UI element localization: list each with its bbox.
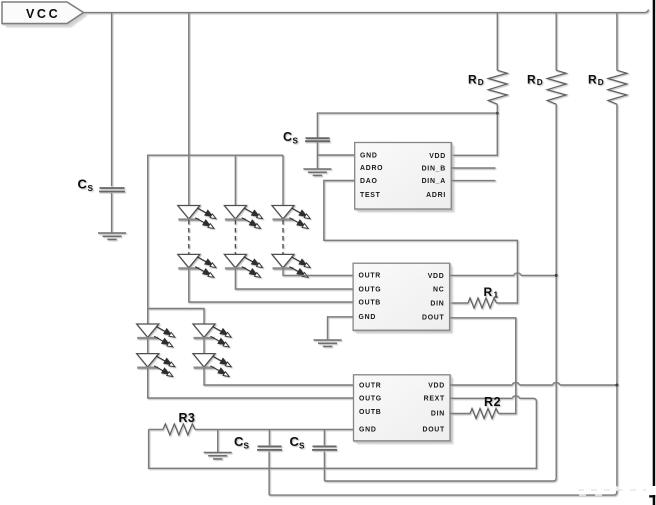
junction at U3 VDD / RD3 leg (615, 384, 618, 387)
resistor RD2 (527, 70, 566, 104)
wire Cs3 bottom lead (268, 452, 270, 496)
svg-text:DIN: DIN (431, 410, 445, 417)
svg-text:ADRO: ADRO (360, 165, 383, 172)
wire bank1 col2 feed (234, 155, 236, 205)
LED D7 (bank2 r1c1) (137, 324, 175, 347)
svg-text:S: S (88, 184, 94, 193)
wire Cs left bottom lead (111, 193, 113, 233)
wire LED bank1 top rail (148, 155, 283, 324)
svg-text:DIN: DIN (430, 300, 444, 307)
svg-text:ADRI: ADRI (426, 192, 446, 199)
junction at Cs2 wire / RD1 leg (496, 112, 499, 115)
capacitor C_S (by U1) (283, 130, 330, 146)
svg-text:C: C (78, 177, 88, 192)
wire RD3 lower leg to Cs3 rail (269, 104, 617, 495)
svg-text:GND: GND (360, 152, 378, 159)
svg-text:R: R (527, 73, 536, 87)
LED D9 (bank2 r2c1) (137, 354, 175, 377)
wire bank2 col1 link (147, 338, 149, 353)
power flag VCC (2, 2, 87, 27)
wire U1 DAO to R1 to U2 DIN (324, 181, 518, 304)
svg-text:R3: R3 (179, 411, 196, 425)
wire U1 DIN_B stub (451, 167, 495, 169)
capacitor C_S (Cs4) (290, 434, 338, 451)
svg-text:C: C (234, 434, 244, 449)
svg-text:DIN_A: DIN_A (422, 178, 446, 185)
wire VCC branch to Cs left (111, 13, 113, 187)
wire U2 DOUT to R2 to U3 DIN (450, 318, 516, 414)
svg-text:VDD: VDD (429, 153, 446, 160)
svg-text:OUTB: OUTB (359, 299, 382, 306)
wire Cs2 bottom lead (316, 142, 318, 168)
svg-text:C: C (283, 130, 292, 144)
wire Cs4 bottom lead (323, 452, 325, 482)
resistor RD3 (588, 70, 627, 104)
hop arc on U3 REXT (512, 396, 519, 399)
LED D6 (bank1 r2c3) (272, 254, 310, 277)
wire D9 cathode to U3 OUTG (148, 368, 354, 398)
wire U2 GND to ground (328, 317, 354, 339)
wire bank2 col2 link (203, 338, 205, 353)
wire D5 cathode to U2 OUTG (235, 269, 353, 289)
svg-text:OUTG: OUTG (359, 286, 382, 293)
svg-text:OUTG: OUTG (359, 396, 382, 403)
svg-text:R: R (484, 285, 493, 299)
svg-text:VDD: VDD (428, 382, 445, 389)
wire VCC branch to LED bank1 col1 (188, 13, 190, 206)
resistor RD1 (468, 70, 507, 104)
wire Cs2 top to RD1 leg (317, 113, 497, 137)
svg-text:DAO: DAO (360, 178, 378, 185)
wire R2 lead to U3 DIN (450, 413, 470, 415)
LED D2 (bank1 r1c2) (224, 206, 262, 229)
svg-text:NC: NC (433, 286, 444, 293)
capacitor C_S (Cs3) (234, 434, 282, 451)
svg-text:S: S (244, 442, 250, 451)
wire bank1 col3 feed (282, 155, 284, 205)
svg-text:C: C (290, 434, 300, 449)
border black tick (649, 495, 655, 497)
svg-text:DIN_B: DIN_B (422, 165, 446, 172)
svg-text:OUTR: OUTR (359, 273, 382, 280)
LED D3 (bank1 r1c3) (272, 206, 310, 229)
svg-text:VCC: VCC (26, 7, 60, 21)
svg-text:S: S (293, 136, 299, 145)
resistor R1 (468, 285, 499, 308)
svg-text:R: R (588, 73, 597, 87)
resistor R3 (163, 411, 195, 435)
svg-text:GND: GND (359, 314, 377, 321)
ground (GND rail) (204, 453, 232, 459)
wire dashed link col1 (188, 220, 190, 254)
IC U1 (355, 143, 454, 212)
wire D6 cathode to U2 OUTR (283, 269, 353, 276)
wire RD1 to U1 VDD (451, 104, 497, 155)
wire ground tap on GND rail (217, 429, 219, 452)
watermark erase artifact (dashes over Cs3 rail) (577, 485, 646, 495)
wire GND rail (U3 GND to R3) (149, 428, 354, 430)
hop arc on U2 VDD (514, 273, 521, 276)
IC U3 (354, 375, 453, 444)
LED D10 (bank2 r2c2) (193, 354, 231, 377)
svg-text:R: R (468, 73, 477, 87)
svg-text:VDD: VDD (428, 273, 445, 280)
svg-text:REXT: REXT (424, 396, 445, 403)
wire dashed link col2 (234, 220, 236, 254)
IC U2 (353, 263, 452, 333)
wire dashed link col3 (282, 220, 284, 254)
border right black bar (653, 0, 656, 486)
wire VCC branch to RD2 (555, 13, 557, 71)
LED D5 (bank1 r2c2) (224, 254, 262, 277)
wire Cs3 top lead (268, 429, 270, 445)
svg-text:R2: R2 (484, 395, 501, 409)
svg-text:D: D (478, 78, 484, 87)
wire D10 cathode to U3 OUTR (204, 368, 354, 385)
LED D1 (bank1 r1c1) (178, 206, 216, 229)
wire U2 DIN lead to R1 (450, 302, 468, 304)
wire VCC top rail (84, 10, 649, 13)
wire U3 VDD to RD3 leg (two hops) (450, 384, 617, 386)
svg-text:D: D (537, 78, 543, 87)
LED D4 (bank1 r2c1) (178, 254, 216, 277)
junction at U2 VDD / RD2 leg (555, 274, 558, 277)
hop arcs on U3 VDD (512, 383, 559, 386)
svg-text:TEST: TEST (360, 192, 381, 199)
LED D8 (bank2 r1c2) (193, 324, 231, 347)
svg-text:S: S (299, 442, 305, 451)
resistor R2 (470, 395, 501, 419)
wire VCC branch to RD1 (496, 13, 498, 71)
ground (U2 GND) (314, 340, 342, 346)
ground (under Cs2 / U1 GND) (303, 169, 331, 175)
svg-text:GND: GND (359, 426, 377, 433)
wire U2 VDD to RD2 leg (hop over R1 riser) (450, 274, 557, 276)
wire U1 DIN_A stub (451, 180, 495, 182)
svg-text:D: D (598, 78, 604, 87)
ground (under left Cs) (98, 233, 126, 239)
wire D4 cathode to U2 OUTB (189, 269, 353, 302)
wire Cs4 top lead (323, 429, 325, 445)
capacitor C_S (left) (78, 177, 126, 194)
svg-text:1: 1 (494, 291, 499, 300)
svg-text:OUTB: OUTB (359, 409, 382, 416)
wire U3 REXT loop to R3 (hop over R2 riser) (149, 398, 537, 468)
wire RD2 lower leg to Cs4 rail (324, 104, 556, 481)
svg-text:DOUT: DOUT (422, 314, 445, 321)
wire VCC branch to RD3 (616, 13, 618, 71)
svg-text:DOUT: DOUT (422, 426, 445, 433)
wire LED bank2 top rail (148, 309, 204, 325)
wire U1 GND to Cs2 node (317, 154, 354, 156)
svg-text:OUTR: OUTR (359, 382, 382, 389)
